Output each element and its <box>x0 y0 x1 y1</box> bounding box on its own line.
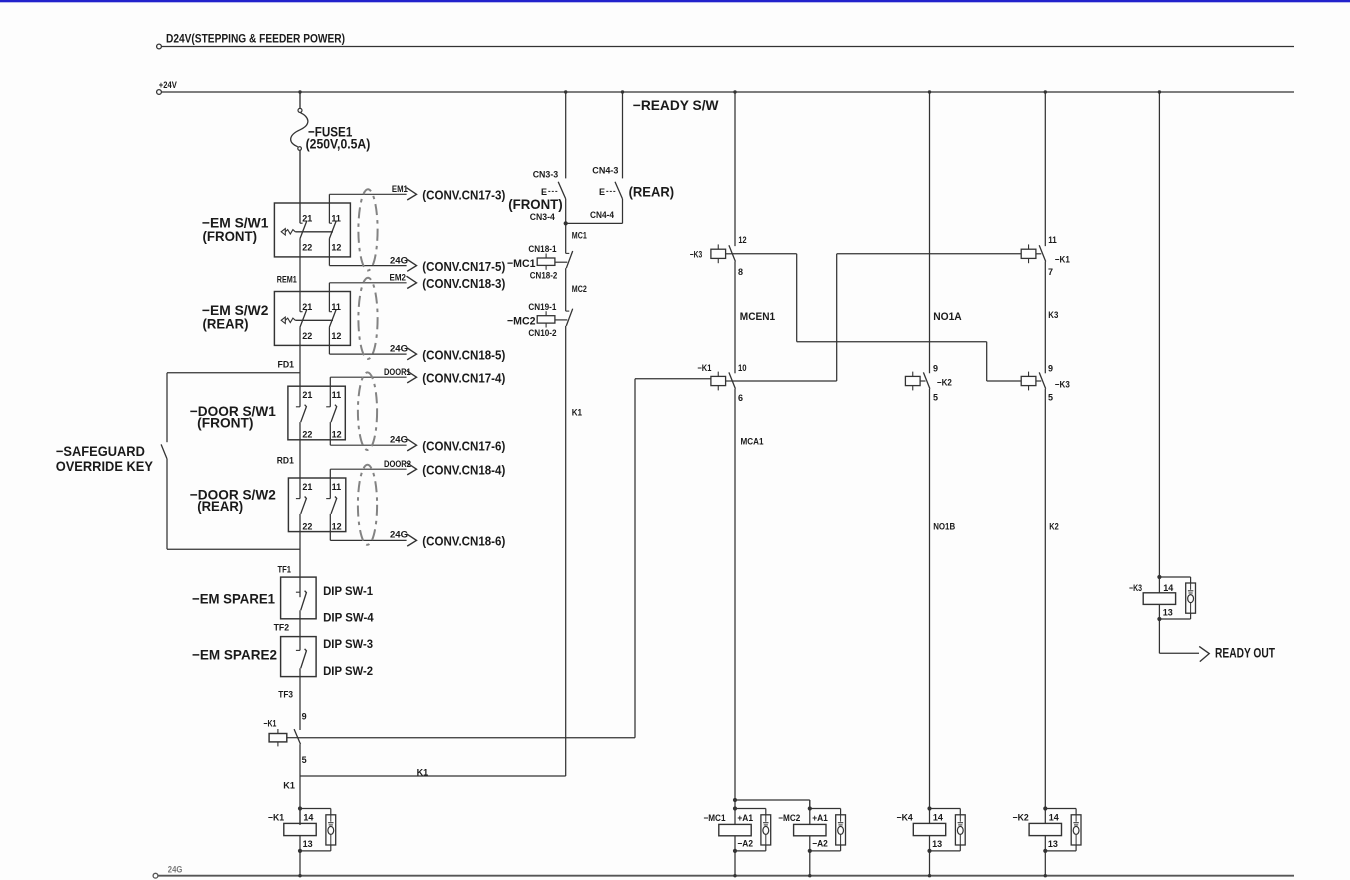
wire K1 crosslink to MC branch <box>300 775 566 777</box>
svg-text:12: 12 <box>738 235 746 245</box>
node: +24V to MCEN branch <box>733 90 736 93</box>
svg-text:CN18-1: CN18-1 <box>528 244 556 254</box>
switch EM SPARE1 body <box>281 577 317 619</box>
svg-text:EM1: EM1 <box>392 184 408 194</box>
wire 24G of EM S/W2 <box>329 353 406 355</box>
EM S/W1 actuator linkage <box>281 229 285 235</box>
svg-text:−SAFEGUARD: −SAFEGUARD <box>56 444 145 459</box>
wire: -K1 to -K3 9-5 <box>1044 262 1046 374</box>
relay coil -K2 (14/13) with suppressor <box>1043 806 1047 810</box>
svg-text:11: 11 <box>332 390 342 400</box>
svg-text:5: 5 <box>302 755 307 765</box>
arrow READY OUT <box>1199 646 1209 661</box>
wire: safeguard bypass left lower <box>166 459 168 550</box>
wire EM1 to connector <box>329 193 406 195</box>
svg-text:21: 21 <box>302 302 312 312</box>
svg-text:NO1A: NO1A <box>933 311 962 323</box>
wire: -K3 to -K1 10-6 <box>734 262 736 374</box>
svg-text:24G: 24G <box>390 255 408 265</box>
svg-text:−K2: −K2 <box>1013 813 1029 823</box>
cable shield ellipse DOOR S/W2 <box>358 465 377 545</box>
svg-text:−A2: −A2 <box>737 839 753 849</box>
wire: main bus through REM1 <box>299 239 301 312</box>
svg-text:9: 9 <box>302 711 307 721</box>
wire 24G of DOOR S/W2 <box>330 539 406 541</box>
EM S/W2 NC contact 21-22 on main bus <box>300 311 303 313</box>
wire: +24V down NO1A branch <box>929 92 931 373</box>
wire: +24V down to -K1 11-7 <box>1044 92 1046 246</box>
svg-text:−K4: −K4 <box>897 813 913 823</box>
svg-text:−K3: −K3 <box>690 249 702 259</box>
svg-text:K1: K1 <box>572 408 582 418</box>
svg-text:13: 13 <box>1163 607 1173 617</box>
node: FRONT/REAR join <box>564 221 568 225</box>
node: +24V to MC branch <box>564 90 567 93</box>
wire: +24V down to -K3 12-8 <box>734 92 736 246</box>
svg-text:(CONV.CN18-6): (CONV.CN18-6) <box>422 534 505 549</box>
svg-text:DOOR1: DOOR1 <box>384 367 411 377</box>
svg-text:22: 22 <box>302 521 312 531</box>
wire: bus below -K1 9-5 <box>299 744 301 825</box>
wire: -K1 contact to MCA1 riser <box>297 737 635 739</box>
wire: E REAR down and left to join <box>622 199 624 224</box>
EM S/W2 actuator linkage <box>281 317 285 323</box>
wire: safeguard bypass bottom <box>167 548 300 550</box>
svg-text:CN10-2: CN10-2 <box>528 328 556 338</box>
node: +24V to READY branch <box>621 90 624 93</box>
svg-text:DIP SW-2: DIP SW-2 <box>323 664 373 678</box>
svg-text:+A1: +A1 <box>812 813 828 823</box>
wire: riser down to row2 <box>986 342 988 381</box>
svg-text:6: 6 <box>738 393 743 403</box>
svg-text:K1: K1 <box>283 781 295 791</box>
svg-text:−EM SPARE2: −EM SPARE2 <box>192 647 277 662</box>
svg-text:21: 21 <box>302 390 312 400</box>
svg-text:12: 12 <box>331 243 341 253</box>
svg-text:OVERRIDE KEY: OVERRIDE KEY <box>56 459 153 474</box>
wire: main bus through safeguard tap <box>299 514 301 597</box>
wire: cross link row middle <box>797 341 987 343</box>
svg-text:9: 9 <box>1048 364 1053 374</box>
switch SAFEGUARD OVERRIDE KEY <box>161 444 167 458</box>
svg-text:−MC1: −MC1 <box>704 813 726 823</box>
wire: riser down from row1 <box>796 254 798 342</box>
svg-text:12: 12 <box>332 430 342 440</box>
cable shield ellipse EM S/W1 <box>358 189 377 270</box>
svg-text:−MC1: −MC1 <box>507 258 536 270</box>
wire: +24V down to -K3 coil <box>1158 92 1160 577</box>
wire: bus between spares <box>299 610 301 650</box>
svg-text:MC1: MC1 <box>572 230 587 240</box>
door switch body <box>288 478 345 532</box>
svg-text:13: 13 <box>932 839 942 849</box>
contactor coil -MC1 (+A1/-A2) with suppressor <box>733 806 737 810</box>
wire: row1 to -K1 11-7 contact <box>837 253 1022 255</box>
svg-text:(CONV.CN18-3): (CONV.CN18-3) <box>422 276 505 291</box>
svg-text:5: 5 <box>933 393 938 403</box>
svg-text:22: 22 <box>302 243 312 253</box>
svg-text:(FRONT): (FRONT) <box>203 229 258 244</box>
door NC contact 11-12 <box>329 469 331 498</box>
svg-text:(REAR): (REAR) <box>203 317 249 332</box>
svg-text:5: 5 <box>1048 393 1053 403</box>
door NC contact 21-22 on main bus <box>296 406 300 408</box>
blue page top border <box>0 0 1350 2</box>
svg-text:−MC2: −MC2 <box>507 316 536 328</box>
svg-text:14: 14 <box>933 813 943 823</box>
svg-text:14: 14 <box>303 813 313 823</box>
wire: safeguard bypass left upper <box>166 373 168 442</box>
svg-text:E: E <box>541 187 547 197</box>
EM S/W1 NC contact 21-22 on main bus <box>300 222 303 224</box>
svg-text:(CONV.CN17-5): (CONV.CN17-5) <box>422 259 505 274</box>
wire: fuse to EM S/W1 <box>299 150 301 223</box>
svg-text:−K3: −K3 <box>1055 379 1070 389</box>
switch EM SPARE2 body <box>281 637 317 677</box>
svg-text:11: 11 <box>1048 235 1057 245</box>
svg-text:TF2: TF2 <box>274 623 290 633</box>
svg-text:−K2: −K2 <box>937 377 952 387</box>
wire: E FRONT to junction <box>565 199 567 254</box>
svg-text:(CONV.CN18-4): (CONV.CN18-4) <box>422 462 505 477</box>
ground rail 24G <box>153 873 158 878</box>
svg-text:+24V: +24V <box>159 80 177 90</box>
relay contact -K2 pins 9-5 <box>905 376 920 385</box>
wire 24G of EM S/W1 <box>329 265 406 267</box>
svg-text:EM2: EM2 <box>390 273 407 283</box>
svg-text:RD1: RD1 <box>277 456 294 466</box>
wire: main bus through FD1 <box>299 327 301 407</box>
svg-text:CN3-3: CN3-3 <box>533 169 559 179</box>
svg-text:−READY S/W: −READY S/W <box>633 98 719 113</box>
svg-text:22: 22 <box>302 331 312 341</box>
svg-text:READY OUT: READY OUT <box>1215 645 1276 660</box>
switch E (FRONT) CN3-3/CN3-4 <box>558 182 566 199</box>
svg-text:DOOR2: DOOR2 <box>384 459 411 469</box>
wire: main bus through RD1 <box>299 422 301 499</box>
svg-text:TF1: TF1 <box>278 564 292 574</box>
wire: into -K3 9-5 contact <box>987 380 1022 382</box>
power rail +24V <box>157 90 162 95</box>
wire: feed to -MC2 coil <box>735 799 810 801</box>
wire: riser up to -K1 10-6 row <box>634 379 636 738</box>
svg-text:13: 13 <box>1048 839 1058 849</box>
svg-text:CN4-3: CN4-3 <box>592 166 618 176</box>
node: +24V to READY OUT branch <box>1158 90 1161 93</box>
svg-text:(FRONT): (FRONT) <box>197 415 253 430</box>
relay contact -K1 pins 11-7 <box>1021 249 1036 258</box>
svg-text:CN18-2: CN18-2 <box>530 271 558 281</box>
svg-text:(250V,0.5A): (250V,0.5A) <box>306 136 371 151</box>
svg-text:(CONV.CN17-3): (CONV.CN17-3) <box>422 188 505 203</box>
svg-text:12: 12 <box>332 521 342 531</box>
wire: +24V rail to fuse <box>299 92 301 108</box>
wire: MCA1 down to MC coils <box>734 389 736 800</box>
svg-text:8: 8 <box>738 267 743 277</box>
wire DOOR1 to connector <box>330 376 406 378</box>
door NC contact 21-22 on main bus <box>296 498 300 500</box>
EM SPARE1 contact (DIP SW-1 / DIP SW-4) <box>296 591 300 593</box>
svg-text:DIP SW-4: DIP SW-4 <box>323 611 374 625</box>
relay contact -K3 pins 12-8 <box>711 249 726 258</box>
wire: -K3 12-8 to first riser <box>731 253 797 255</box>
svg-text:REM1: REM1 <box>277 274 297 284</box>
svg-text:CN4-4: CN4-4 <box>590 210 614 220</box>
wire 24G of DOOR S/W1 <box>330 444 406 446</box>
svg-text:10: 10 <box>738 363 747 373</box>
svg-text:(REAR): (REAR) <box>629 184 675 199</box>
svg-text:−K1: −K1 <box>697 363 711 373</box>
wire: MC branch down to K1 crosslink <box>565 326 567 776</box>
svg-text:K1: K1 <box>417 768 429 778</box>
switch E (REAR) CN4-3/CN4-4 <box>615 182 623 199</box>
EM SPARE2 contact (DIP SW-3 / DIP SW-2) <box>296 649 300 651</box>
svg-text:MC2: MC2 <box>572 284 587 294</box>
wire DOOR2 to connector <box>330 468 406 470</box>
switch EM S/W1 (FRONT) body <box>274 203 350 257</box>
door NC contact 11-12 <box>329 377 331 407</box>
svg-text:−MC2: −MC2 <box>778 813 800 823</box>
svg-text:14: 14 <box>1163 583 1173 593</box>
svg-text:(CONV.CN17-6): (CONV.CN17-6) <box>422 439 505 454</box>
svg-text:CN3-4: CN3-4 <box>530 212 555 222</box>
svg-text:(FRONT): (FRONT) <box>508 197 563 212</box>
svg-text:MCEN1: MCEN1 <box>740 311 775 323</box>
power rail D24V(STEPPING & FEEDER POWER) <box>157 44 162 49</box>
svg-text:24G: 24G <box>390 529 408 539</box>
svg-text:NO1B: NO1B <box>933 522 955 532</box>
svg-text:(REAR): (REAR) <box>197 499 243 514</box>
relay coil -K3 (14/13) with suppressor <box>1157 575 1161 579</box>
svg-text:−K3: −K3 <box>1129 583 1142 593</box>
svg-text:−K1: −K1 <box>263 719 276 729</box>
wire EM2 to connector <box>329 282 406 284</box>
svg-text:24G: 24G <box>168 865 183 875</box>
EM S/W1 NC contact 11-12 <box>328 194 330 223</box>
node: +24V to NO1A branch <box>928 90 931 93</box>
relay contact -K1 pins 10-6 <box>711 376 726 385</box>
wire: -K1 10-6 out to up-riser <box>731 380 837 382</box>
svg-text:+A1: +A1 <box>737 813 753 823</box>
wire: +24V to E REAR contact <box>622 92 624 178</box>
wire: -K3 coil to READY OUT <box>1158 619 1160 653</box>
svg-text:11: 11 <box>332 482 342 492</box>
svg-text:MCA1: MCA1 <box>741 437 764 447</box>
svg-text:E: E <box>599 187 605 197</box>
svg-text:DIP SW-1: DIP SW-1 <box>323 584 373 598</box>
svg-text:FD1: FD1 <box>278 359 295 369</box>
relay coil -K1 (14/13) with suppressor <box>298 806 302 810</box>
wire: safeguard bypass top <box>167 372 300 374</box>
node: +24V to K branch <box>1044 90 1047 93</box>
EM S/W2 NC contact 11-12 <box>328 283 330 312</box>
svg-text:11: 11 <box>331 302 341 312</box>
relay coil -K4 (14/13) with suppressor <box>927 806 931 810</box>
fuse F1 (FUSE1) <box>298 108 302 112</box>
node: +24V / FUSE1 junction <box>298 90 301 93</box>
svg-text:(CONV.CN18-5): (CONV.CN18-5) <box>422 347 505 362</box>
node: MC coil feed split <box>733 798 737 802</box>
svg-text:22: 22 <box>302 430 312 440</box>
svg-text:13: 13 <box>303 839 313 849</box>
svg-text:TF3: TF3 <box>278 689 293 699</box>
cable shield ellipse EM S/W2 <box>358 278 377 359</box>
svg-text:CN19-1: CN19-1 <box>528 302 556 312</box>
svg-text:−K1: −K1 <box>268 813 284 823</box>
wire: riser up to row1 <box>836 254 838 381</box>
svg-text:−K1: −K1 <box>1055 255 1070 265</box>
wire: MC1 to MC2 contact <box>565 268 567 311</box>
svg-text:D24V(STEPPING & FEEDER POWER): D24V(STEPPING & FEEDER POWER) <box>166 32 345 46</box>
cable shield ellipse DOOR S/W1 <box>358 372 377 450</box>
door switch body <box>288 386 345 440</box>
relay contact -K3 pins 9-5 <box>1021 376 1036 385</box>
svg-text:12: 12 <box>331 331 341 341</box>
wire: -K2 down to -K4 coil <box>929 389 931 809</box>
wire: -K3 down to -K2 coil <box>1044 389 1046 809</box>
switch EM S/W2 (REAR) body <box>274 292 350 346</box>
svg-text:7: 7 <box>1048 267 1053 277</box>
svg-text:24G: 24G <box>390 343 408 353</box>
svg-text:9: 9 <box>933 364 938 374</box>
wire: +24V to E FRONT contact <box>565 92 567 178</box>
svg-text:21: 21 <box>302 214 312 224</box>
svg-text:24G: 24G <box>390 435 408 445</box>
svg-text:(CONV.CN17-4): (CONV.CN17-4) <box>422 370 505 385</box>
svg-text:21: 21 <box>302 482 312 492</box>
svg-text:DIP SW-3: DIP SW-3 <box>323 637 373 651</box>
contactor coil -MC2 (+A1/-A2) with suppressor <box>808 806 812 810</box>
svg-text:−A2: −A2 <box>812 839 828 849</box>
svg-text:K2: K2 <box>1049 522 1059 532</box>
wire: bus to K1 aux contact <box>299 668 301 730</box>
svg-text:−EM SPARE1: −EM SPARE1 <box>192 591 275 606</box>
wire: riser to -K1 10-6 contact <box>635 378 711 380</box>
svg-text:K3: K3 <box>1048 310 1058 320</box>
svg-text:11: 11 <box>331 214 341 224</box>
svg-text:14: 14 <box>1049 813 1059 823</box>
